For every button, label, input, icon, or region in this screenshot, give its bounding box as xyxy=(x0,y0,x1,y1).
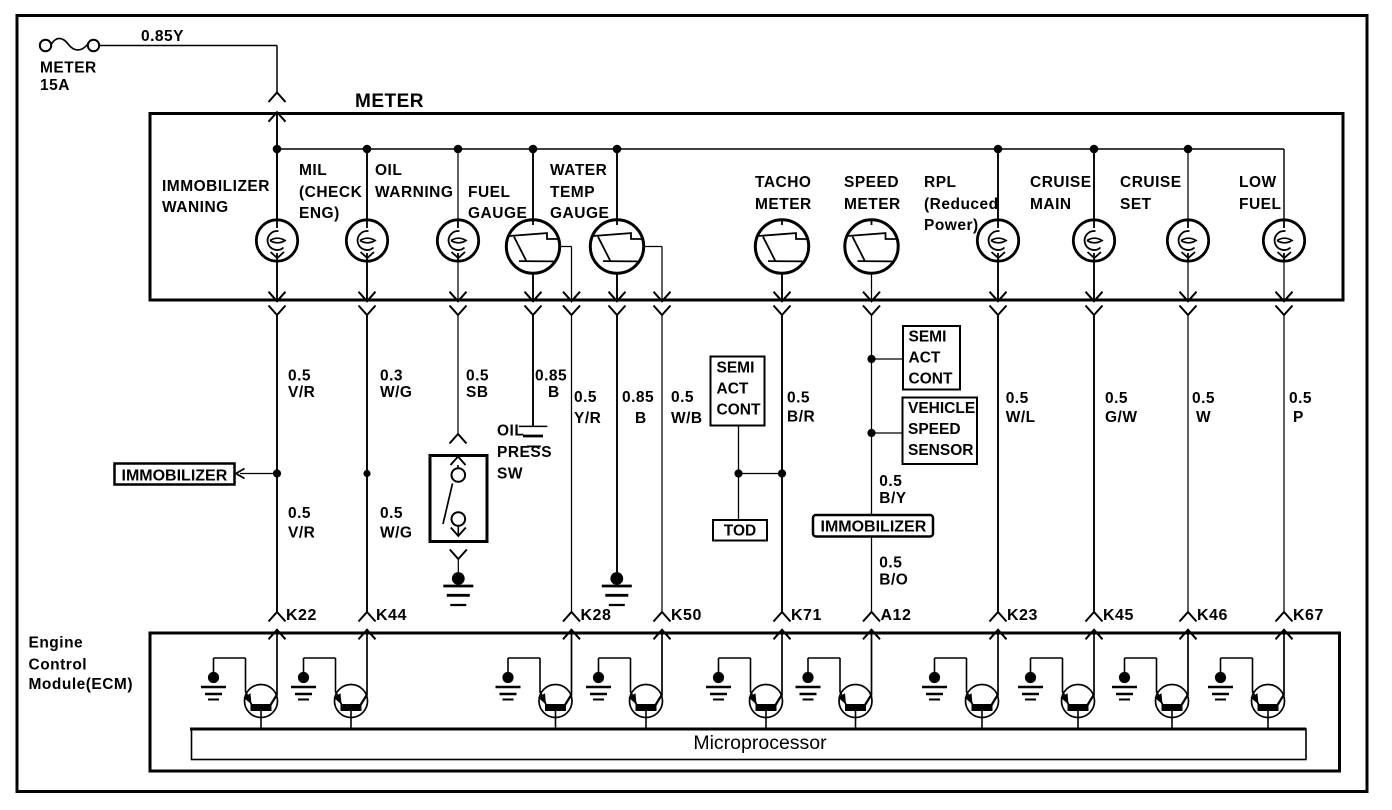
svg-text:VEHICLE: VEHICLE xyxy=(908,400,975,417)
pin arrow at METER bottom xyxy=(563,292,580,302)
svg-text:K71: K71 xyxy=(791,607,822,624)
box Microprocessor xyxy=(192,729,1307,760)
pin arrow at METER bottom xyxy=(1276,292,1293,302)
wire 0.85 B to ground xyxy=(532,315,534,426)
wire speed meter to A12 xyxy=(871,315,873,612)
pin arrow at METER bottom xyxy=(654,292,671,302)
svg-text:W/G: W/G xyxy=(380,384,413,401)
bus wire inside METER xyxy=(277,148,1284,150)
svg-text:IMMOBILIZER: IMMOBILIZER xyxy=(821,519,927,536)
wire drop to lamp CRUISE MAIN xyxy=(1093,149,1095,220)
pin arrow into ECM at K46 xyxy=(1180,630,1197,640)
wire gauge FUEL GAUGE to pin xyxy=(532,273,534,300)
node bus junction xyxy=(363,145,372,154)
svg-text:0.85Y: 0.85Y xyxy=(141,28,184,45)
wire lamp CRUISE SET to pin xyxy=(1187,261,1189,300)
node bus junction xyxy=(1184,145,1193,154)
wire collector Q5 xyxy=(781,633,783,696)
wire SEMI ACT CONT to TOD xyxy=(738,426,740,521)
box OIL PRESS SW xyxy=(430,456,487,542)
pin arrow power into METER xyxy=(269,112,286,122)
gauge FUEL GAUGE xyxy=(506,220,559,273)
wire to VEHICLE SPEED SENSOR xyxy=(872,432,903,434)
pin arrow at METER bottom xyxy=(1086,292,1103,302)
connector chevron below METER xyxy=(1180,306,1197,316)
ground (fuel gauge B) xyxy=(519,426,548,446)
svg-text:Engine: Engine xyxy=(29,635,84,652)
wire to SEMI ACT CONT xyxy=(872,358,904,360)
wire collector Q1 xyxy=(276,633,278,696)
connector chevron K28 xyxy=(563,612,580,622)
connector chevron below METER xyxy=(359,306,376,316)
wire base Q3 to microprocessor xyxy=(555,711,557,729)
svg-text:IMMOBILIZER: IMMOBILIZER xyxy=(122,468,228,485)
svg-text:ACT: ACT xyxy=(717,381,749,398)
node junction to IMMOBILIZER xyxy=(273,469,281,477)
node bus junction xyxy=(529,145,538,154)
pin arrow into ECM at K44 xyxy=(359,630,376,640)
wire emitter Q3 to ground xyxy=(539,658,541,692)
svg-text:B/R: B/R xyxy=(787,408,815,425)
svg-text:SW: SW xyxy=(497,465,523,482)
lamp MIL (CHECK ENG) xyxy=(346,220,387,261)
connector chevron below METER xyxy=(774,306,791,316)
pin arrow at METER bottom xyxy=(269,292,286,302)
svg-text:WATER: WATER xyxy=(550,162,607,179)
svg-text:GAUGE: GAUGE xyxy=(550,205,609,222)
wire emitter Q2 to ground xyxy=(335,658,337,692)
wire emitter Q7 to ground xyxy=(966,658,968,692)
wire 0.3 W/G to K44 xyxy=(366,315,368,612)
wire gauge WATER TEMP GAUGE to pin xyxy=(616,273,618,300)
switch contact upper xyxy=(457,465,459,468)
svg-text:CONT: CONT xyxy=(909,371,953,388)
wire gauge WATER TEMP GAUGE aux output xyxy=(643,246,662,248)
wire drop to gauge WATER TEMP GAUGE xyxy=(616,149,618,221)
wire branch to IMMOBILIZER xyxy=(240,473,277,475)
svg-text:0.5: 0.5 xyxy=(466,368,489,385)
lamp RPL (Reduced Power) xyxy=(977,220,1018,261)
svg-text:0.5: 0.5 xyxy=(288,368,311,385)
svg-text:0.85: 0.85 xyxy=(535,368,567,385)
ground (emitter Q4) xyxy=(586,672,611,700)
svg-text:MIL: MIL xyxy=(299,162,327,179)
pin arrow at METER bottom xyxy=(990,292,1007,302)
box SEMI ACT CONT (tacho) xyxy=(711,357,765,426)
transistor Q1 xyxy=(244,685,278,718)
wire collector Q9 xyxy=(1187,633,1189,696)
wire base Q7 to microprocessor xyxy=(981,711,983,729)
transistor Q8 xyxy=(1061,685,1095,718)
wire 0.5 W xyxy=(1187,315,1189,612)
pin arrow into ECM at K50 xyxy=(654,630,671,640)
node to VEHICLE SPEED SENSOR xyxy=(867,429,875,437)
svg-text:0.5: 0.5 xyxy=(787,389,810,406)
svg-text:GAUGE: GAUGE xyxy=(468,205,527,222)
wire emitter Q4 to ground xyxy=(630,658,632,692)
svg-text:PRESS: PRESS xyxy=(497,444,552,461)
svg-text:0.5: 0.5 xyxy=(1006,390,1029,407)
svg-text:B: B xyxy=(548,384,560,401)
pin arrow into ECM at K71 xyxy=(774,630,791,640)
wire emitter Q6 to ground xyxy=(839,658,841,692)
node tee to tacho wire xyxy=(734,469,742,477)
svg-text:SEMI: SEMI xyxy=(909,329,947,346)
connector chevron below METER xyxy=(609,306,626,316)
connector chevron below METER xyxy=(525,306,542,316)
connector chevron below METER xyxy=(654,306,671,316)
wire base Q9 to microprocessor xyxy=(1171,711,1173,729)
svg-text:B/O: B/O xyxy=(879,571,908,588)
wire 0.5 Y/R to K28 xyxy=(571,315,573,612)
pin arrow at METER bottom xyxy=(525,292,542,302)
svg-text:0.85: 0.85 xyxy=(622,389,654,406)
svg-text:0.3: 0.3 xyxy=(380,368,403,385)
svg-text:K22: K22 xyxy=(286,607,317,624)
gauge TACHO METER xyxy=(755,220,808,273)
wire drop to lamp LOW FUEL xyxy=(1283,149,1285,220)
svg-text:SENSOR: SENSOR xyxy=(908,442,973,459)
svg-text:SEMI: SEMI xyxy=(717,360,755,377)
wire drop to lamp OIL WARNING xyxy=(457,149,459,220)
svg-text:P: P xyxy=(1293,409,1304,426)
pin arrow into ECM at K22 xyxy=(269,630,286,640)
connector chevron K67 xyxy=(1276,612,1293,622)
pin arrow into ECM at K45 xyxy=(1086,630,1103,640)
wire drop to lamp MIL (CHECK ENG) xyxy=(366,149,368,220)
wire lamp CRUISE MAIN to pin xyxy=(1093,261,1095,300)
wire lamp LOW FUEL to pin xyxy=(1283,261,1285,300)
wire collector Q10 xyxy=(1283,633,1285,696)
svg-text:TOD: TOD xyxy=(724,523,756,540)
wire gauge SPEED METER to pin xyxy=(871,273,873,300)
svg-text:K28: K28 xyxy=(581,607,612,624)
transistor Q2 xyxy=(334,685,368,718)
svg-text:A12: A12 xyxy=(881,607,912,624)
lamp CRUISE MAIN xyxy=(1073,220,1114,261)
connector chevron below METER xyxy=(990,306,1007,316)
svg-text:FUEL: FUEL xyxy=(468,184,510,201)
wire collector Q3 xyxy=(571,633,573,696)
connector chevron at power feed xyxy=(269,93,286,103)
svg-text:WARNING: WARNING xyxy=(375,184,453,201)
svg-text:IMMOBILIZER: IMMOBILIZER xyxy=(162,178,270,195)
wire 0.5 SB to OIL PRESS SW xyxy=(457,315,459,434)
wire gauge TACHO METER to pin xyxy=(781,273,783,300)
node bus junction xyxy=(1090,145,1099,154)
wire base Q2 to microprocessor xyxy=(350,711,352,729)
wire lamp MIL (CHECK ENG) to pin xyxy=(366,261,368,300)
switch blade xyxy=(443,484,453,525)
wire emitter Q10 to ground xyxy=(1252,658,1254,692)
wire base Q8 to microprocessor xyxy=(1077,711,1079,729)
svg-text:MAIN: MAIN xyxy=(1030,196,1072,213)
svg-text:RPL: RPL xyxy=(924,174,957,191)
lamp IMMOBILIZER WANING xyxy=(256,220,297,261)
svg-text:TEMP: TEMP xyxy=(550,184,595,201)
wire 0.5 G/W xyxy=(1093,315,1095,612)
wire 0.5 W/B to K50 xyxy=(661,315,663,612)
wire emitter Q5 to ground xyxy=(750,658,752,692)
node bus junction xyxy=(273,145,282,154)
svg-text:METER: METER xyxy=(755,196,812,213)
transistor Q9 xyxy=(1155,685,1189,718)
transistor Q4 xyxy=(629,685,663,718)
wire lamp IMMOBILIZER WANING to pin xyxy=(276,261,278,300)
connector chevron below OIL PRESS SW xyxy=(450,550,467,560)
svg-text:SET: SET xyxy=(1120,196,1152,213)
box Engine Control Module (ECM) xyxy=(150,633,1340,771)
ground (water temp B) xyxy=(602,572,632,605)
svg-text:METER: METER xyxy=(40,59,97,76)
svg-text:FUEL: FUEL xyxy=(1239,196,1281,213)
svg-text:Microprocessor: Microprocessor xyxy=(693,732,827,754)
wire 0.5 B/R to K71 xyxy=(781,315,783,612)
pin arrow at METER bottom xyxy=(359,292,376,302)
svg-text:TACHO: TACHO xyxy=(755,174,811,191)
svg-text:G/W: G/W xyxy=(1105,409,1138,426)
svg-text:W/G: W/G xyxy=(380,524,413,541)
wire collector Q4 xyxy=(661,633,663,696)
connector chevron below METER xyxy=(863,306,880,316)
ground (oil press sw) xyxy=(443,572,473,605)
wire 0.5 V/R to K22 xyxy=(276,315,278,612)
svg-text:ENG): ENG) xyxy=(299,205,340,222)
svg-text:V/R: V/R xyxy=(288,524,315,541)
connector chevron K46 xyxy=(1180,612,1197,622)
transistor Q10 xyxy=(1251,685,1285,718)
wire drop to lamp RPL (Reduced Power) xyxy=(997,149,999,220)
transistor Q7 xyxy=(965,685,999,718)
pin arrow into ECM at K28 xyxy=(563,630,580,640)
lamp OIL WARNING xyxy=(437,220,478,261)
transistor Q6 xyxy=(838,685,872,718)
wire base Q4 to microprocessor xyxy=(645,711,647,729)
wire tee to tacho wire xyxy=(739,473,783,475)
wire emitter Q9 to ground xyxy=(1156,658,1158,692)
box TOD xyxy=(713,520,767,541)
connector chevron K71 xyxy=(774,612,791,622)
ground (emitter Q1) xyxy=(201,672,226,700)
wire collector Q8 xyxy=(1093,633,1095,696)
wire drop to gauge FUEL GAUGE xyxy=(532,149,534,221)
wire 0.85Y from fuse to METER xyxy=(99,45,277,47)
svg-text:SPEED: SPEED xyxy=(908,421,961,438)
pin arrow at METER bottom xyxy=(1180,292,1197,302)
connector chevron above OIL PRESS SW xyxy=(450,434,467,444)
svg-text:W: W xyxy=(1196,409,1211,426)
wire 0.5 P xyxy=(1283,315,1285,612)
wire collector Q7 xyxy=(997,633,999,696)
svg-text:K44: K44 xyxy=(376,607,407,624)
connector chevron K44 xyxy=(359,612,376,622)
svg-text:SB: SB xyxy=(466,384,489,401)
svg-text:B: B xyxy=(635,410,647,427)
svg-text:0.5: 0.5 xyxy=(879,473,902,490)
svg-text:0.5: 0.5 xyxy=(288,505,311,522)
svg-text:Y/R: Y/R xyxy=(574,410,601,427)
svg-text:CONT: CONT xyxy=(717,402,761,419)
connector chevron K45 xyxy=(1086,612,1103,622)
svg-text:K23: K23 xyxy=(1007,607,1038,624)
wire feed to bus xyxy=(276,115,278,220)
wire base Q1 to microprocessor xyxy=(260,711,262,729)
pin arrow into OIL PRESS SW xyxy=(451,457,466,466)
connector chevron K22 xyxy=(269,612,286,622)
lamp LOW FUEL xyxy=(1263,220,1304,261)
svg-text:(CHECK: (CHECK xyxy=(299,184,363,201)
wire base Q5 to microprocessor xyxy=(765,711,767,729)
wire collector Q2 xyxy=(366,633,368,696)
pin arrow out of OIL PRESS SW xyxy=(457,526,459,536)
svg-text:Module(ECM): Module(ECM) xyxy=(29,676,134,693)
wire lamp RPL (Reduced Power) to pin xyxy=(997,261,999,300)
svg-text:V/R: V/R xyxy=(288,384,315,401)
svg-text:OIL: OIL xyxy=(375,162,402,179)
svg-text:15A: 15A xyxy=(40,77,70,94)
transistor Q5 xyxy=(749,685,783,718)
switch contact lower xyxy=(452,512,466,526)
wire drop to lamp CRUISE SET xyxy=(1187,149,1189,220)
svg-text:0.5: 0.5 xyxy=(1192,390,1215,407)
wire to ground xyxy=(457,559,459,573)
ground (emitter Q7) xyxy=(922,672,947,700)
svg-text:Power): Power) xyxy=(924,217,979,234)
svg-text:METER: METER xyxy=(844,196,901,213)
ground (emitter Q5) xyxy=(706,672,731,700)
connector chevron below METER xyxy=(450,306,467,316)
gauge SPEED METER xyxy=(845,220,898,273)
connector chevron below METER xyxy=(269,306,286,316)
ground (emitter Q8) xyxy=(1018,672,1043,700)
svg-text:B/Y: B/Y xyxy=(879,490,907,507)
wire emitter Q1 to ground xyxy=(245,658,247,692)
svg-text:W/L: W/L xyxy=(1006,409,1036,426)
box SEMI ACT CONT (speed) xyxy=(903,326,960,390)
svg-text:K46: K46 xyxy=(1197,607,1228,624)
node bus junction xyxy=(994,145,1003,154)
connector chevron below METER xyxy=(1276,306,1293,316)
pin arrow at METER bottom xyxy=(450,292,467,302)
wire emitter Q8 to ground xyxy=(1062,658,1064,692)
pin arrow into ECM at A12 xyxy=(863,630,880,640)
wire base Q10 to microprocessor xyxy=(1267,711,1269,729)
node bus junction xyxy=(454,145,463,154)
svg-text:0.5: 0.5 xyxy=(380,505,403,522)
svg-text:Control: Control xyxy=(29,657,88,674)
arrowhead into IMMOBILIZER box xyxy=(236,469,245,479)
fuse METER 15A xyxy=(40,38,99,51)
ground (emitter Q3) xyxy=(496,672,521,700)
box IMMOBILIZER (on speed wire) xyxy=(813,515,933,537)
svg-text:CRUISE: CRUISE xyxy=(1120,174,1182,191)
svg-text:0.5: 0.5 xyxy=(1105,390,1128,407)
wire 0.85 B to ground xyxy=(616,315,618,573)
svg-text:OIL: OIL xyxy=(497,423,524,440)
wire collector Q6 xyxy=(871,633,873,696)
svg-text:0.5: 0.5 xyxy=(1289,390,1312,407)
connector chevron A12 xyxy=(863,612,880,622)
lamp CRUISE SET xyxy=(1167,220,1208,261)
wire lamp OIL WARNING to pin xyxy=(457,261,459,300)
svg-text:SPEED: SPEED xyxy=(844,174,899,191)
wire drop to lamp IMMOBILIZER WANING xyxy=(276,149,278,220)
transistor Q3 xyxy=(538,685,572,718)
wire base Q6 to microprocessor xyxy=(855,711,857,729)
svg-text:K67: K67 xyxy=(1293,607,1324,624)
svg-text:0.5: 0.5 xyxy=(574,389,597,406)
svg-text:METER: METER xyxy=(355,91,424,112)
node bus junction xyxy=(613,145,622,154)
svg-text:K45: K45 xyxy=(1103,607,1134,624)
connector chevron K50 xyxy=(654,612,671,622)
ground (emitter Q10) xyxy=(1208,672,1233,700)
svg-text:ACT: ACT xyxy=(909,350,941,367)
svg-text:0.5: 0.5 xyxy=(879,554,902,571)
box METER (instrument cluster) xyxy=(150,114,1343,301)
svg-text:0.5: 0.5 xyxy=(671,389,694,406)
svg-text:W/B: W/B xyxy=(671,410,703,427)
svg-text:CRUISE: CRUISE xyxy=(1030,174,1092,191)
pin arrow at METER bottom xyxy=(609,292,626,302)
gauge WATER TEMP GAUGE xyxy=(590,220,643,273)
pin arrow at METER bottom xyxy=(774,292,791,302)
node to SEMI ACT CONT xyxy=(867,355,875,363)
node splice on MIL wire xyxy=(363,470,370,477)
ground (emitter Q9) xyxy=(1112,672,1137,700)
box IMMOBILIZER (left) xyxy=(115,464,235,485)
pin arrow into ECM at K23 xyxy=(990,630,1007,640)
wire gauge FUEL GAUGE aux output xyxy=(559,246,572,248)
node on tacho wire xyxy=(778,469,786,477)
pin arrow at METER bottom xyxy=(863,292,880,302)
pin arrow into ECM at K67 xyxy=(1276,630,1293,640)
svg-text:WANING: WANING xyxy=(162,199,229,216)
ground (emitter Q6) xyxy=(796,672,821,700)
box VEHICLE SPEED SENSOR xyxy=(903,398,978,465)
connector chevron K23 xyxy=(990,612,1007,622)
svg-text:(Reduced: (Reduced xyxy=(924,196,999,213)
svg-text:LOW: LOW xyxy=(1239,174,1277,191)
connector chevron below METER xyxy=(563,306,580,316)
connector chevron below METER xyxy=(1086,306,1103,316)
wire 0.5 W/L xyxy=(997,315,999,612)
svg-text:K50: K50 xyxy=(671,607,702,624)
ground (emitter Q2) xyxy=(291,672,316,700)
